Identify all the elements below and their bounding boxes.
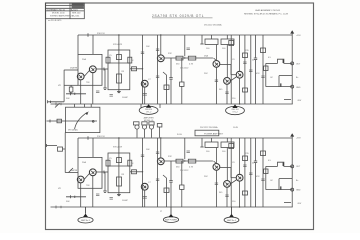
svg-text:2SA798: 2SA798 — [70, 67, 78, 70]
svg-text:REVISED SYS-LBF-05 SCHEMATIC P: REVISED SYS-LBF-05 SCHEMATIC P.C. 10-W — [244, 12, 288, 15]
svg-text:GND: GND — [296, 87, 301, 89]
svg-text:2SC1222: 2SC1222 — [180, 170, 189, 172]
svg-text:1000P: 1000P — [122, 97, 128, 99]
svg-text:AMP POWER: AMP POWER — [165, 219, 177, 222]
svg-text:R-CH: R-CH — [177, 134, 182, 136]
svg-text:STK-0029: STK-0029 — [113, 44, 123, 46]
svg-text:GND: GND — [296, 190, 301, 192]
svg-text:MODEL-05: MODEL-05 — [144, 120, 153, 122]
svg-text:AMP No.3: AMP No.3 — [81, 219, 90, 222]
svg-text:R101 1K: R101 1K — [97, 33, 105, 35]
svg-text:VR 50K(B): VR 50K(B) — [68, 130, 78, 132]
svg-text:AMP No.4: AMP No.4 — [227, 219, 236, 222]
svg-text:17: 17 — [160, 211, 162, 213]
svg-text:-35V: -35V — [297, 100, 302, 102]
svg-text:POWER AMP UNIT: POWER AMP UNIT — [204, 132, 224, 135]
svg-text:STEREO AMPLIFIER 21: STEREO AMPLIFIER 21 — [50, 15, 74, 18]
svg-text:MODEL 2100: MODEL 2100 — [52, 13, 65, 15]
svg-text:SCHEMATIC NO.21: SCHEMATIC NO.21 — [47, 8, 67, 11]
svg-text:-35V: -35V — [297, 203, 302, 205]
svg-text:A-3021: A-3021 — [71, 8, 79, 11]
svg-text:2SA: 2SA — [204, 55, 208, 58]
svg-text:+35V: +35V — [296, 138, 301, 140]
svg-text:4.7K: 4.7K — [189, 64, 194, 66]
svg-text:STK-0029: STK-0029 — [113, 147, 123, 149]
svg-text:2SC: 2SC — [204, 73, 208, 75]
svg-text:W-2134: W-2134 — [72, 16, 80, 18]
svg-text:OTL-2: OTL-2 — [232, 112, 237, 114]
svg-text:no.210 8 6679: no.210 8 6679 — [48, 20, 62, 22]
svg-text:2SA: 2SA — [82, 58, 86, 61]
svg-text:+35V: +35V — [296, 35, 301, 37]
svg-text:2SA798 STK 0029/B OTL: 2SA798 STK 0029/B OTL — [152, 14, 204, 18]
svg-text:LEAD ASSEMBLY 2SC945: LEAD ASSEMBLY 2SC945 — [255, 9, 281, 12]
svg-text:SER.100: SER.100 — [72, 13, 81, 15]
svg-text:2SC1222 2SC634A: 2SC1222 2SC634A — [200, 126, 218, 129]
svg-text:10-W: 10-W — [233, 127, 238, 129]
svg-text:2SC1222 2SC634A: 2SC1222 2SC634A — [204, 24, 222, 27]
svg-text:2SC1222: 2SC1222 — [180, 68, 189, 70]
svg-text:OTL-2: OTL-2 — [146, 111, 151, 113]
